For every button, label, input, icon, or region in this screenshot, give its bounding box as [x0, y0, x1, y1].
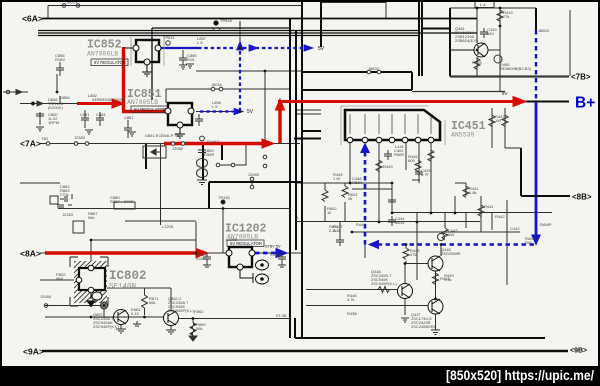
svg-text:R438: R438	[347, 311, 357, 316]
svg-text:56V: 56V	[487, 31, 494, 36]
svg-text:270k: 270k	[60, 192, 69, 197]
svg-text:R444: R444	[440, 276, 450, 281]
svg-text:RAMP: RAMP	[540, 222, 552, 227]
svg-text:2SC2458GRL: 2SC2458GRL	[411, 324, 437, 329]
svg-text:AN7806LB: AN7806LB	[87, 51, 118, 58]
svg-text:<6A>: <6A>	[22, 14, 43, 24]
svg-text:<9A>: <9A>	[23, 347, 44, 357]
svg-text:<7B>: <7B>	[571, 73, 591, 82]
svg-text:R443: R443	[383, 164, 393, 169]
svg-text:TP818: TP818	[220, 18, 233, 23]
svg-text:B+: B+	[575, 95, 595, 112]
svg-text:680R: 680R	[395, 220, 405, 225]
svg-text:77k: 77k	[503, 14, 509, 19]
svg-text:AN7805LB: AN7805LB	[127, 99, 158, 106]
svg-text:J2068: J2068	[40, 294, 52, 299]
svg-text:AN5539: AN5539	[451, 132, 475, 139]
svg-text:C867: C867	[124, 115, 134, 120]
svg-text:R442: R442	[495, 214, 505, 219]
svg-text:4k: 4k	[348, 196, 352, 201]
svg-text:56k: 56k	[196, 326, 202, 331]
svg-text:D856: D856	[60, 95, 70, 100]
svg-text:FB62: FB62	[194, 309, 204, 314]
svg-text:5V REGULATOR: 5V REGULATOR	[134, 107, 166, 112]
svg-text:0.15: 0.15	[131, 311, 140, 316]
svg-text:1W: 1W	[448, 232, 454, 237]
svg-text:R16V: R16V	[196, 256, 206, 261]
svg-text:1k: 1k	[327, 210, 331, 215]
svg-text:TP811: TP811	[163, 35, 175, 40]
svg-text:<8A>: <8A>	[20, 249, 41, 259]
svg-text:1 W: 1 W	[333, 176, 340, 181]
svg-text:J8016: J8016	[211, 82, 223, 87]
svg-text:2SD2058R: 2SD2058R	[441, 251, 461, 256]
svg-text:C864: C864	[96, 112, 106, 117]
svg-text:5V: 5V	[318, 46, 325, 52]
svg-text:J2163: J2163	[62, 212, 74, 217]
svg-text:0T-0B: 0T-0B	[276, 313, 287, 318]
svg-text:6V REGULATOR: 6V REGULATOR	[94, 60, 126, 65]
svg-text:R16: R16	[187, 57, 195, 62]
svg-text:R867: R867	[110, 199, 120, 204]
svg-text:MW: MW	[56, 276, 63, 281]
svg-text:600: 600	[408, 158, 415, 163]
svg-text:9V: 9V	[502, 91, 508, 96]
svg-text:04RB334(LX2026): 04RB334(LX2026)	[92, 97, 126, 102]
svg-text:L 4: L 4	[480, 2, 486, 7]
svg-text:R418: R418	[472, 60, 482, 65]
svg-text:TB2: TB2	[41, 136, 49, 141]
svg-text:<9B>: <9B>	[570, 348, 587, 355]
svg-text:2SB624(E,F): 2SB624(E,F)	[455, 38, 479, 43]
svg-text:556: 556	[525, 240, 532, 245]
svg-text:L1205: L1205	[226, 237, 238, 242]
svg-text:J8603: J8603	[538, 28, 550, 33]
svg-text:C442: C442	[510, 226, 520, 231]
svg-text:47k: 47k	[410, 252, 416, 257]
svg-text:J2383: J2383	[74, 135, 86, 140]
svg-text:5V: 5V	[247, 109, 254, 115]
svg-text:4.7k: 4.7k	[347, 297, 355, 302]
svg-text:1RPM: 1RPM	[48, 120, 59, 125]
svg-text:D1442: D1442	[207, 139, 220, 144]
svg-text:RD5600B(B2,B3): RD5600B(B2,B3)	[500, 66, 532, 71]
svg-text:(K200V): (K200V)	[48, 105, 63, 110]
svg-text:R16V: R16V	[55, 57, 65, 62]
svg-text:C861: C861	[80, 112, 90, 117]
svg-text:J2065: J2065	[172, 146, 184, 151]
svg-text:56k: 56k	[149, 300, 155, 305]
svg-text:L 5: L 5	[212, 104, 218, 109]
svg-text:R443: R443	[356, 222, 366, 227]
svg-text:[850x520] https://upic.me/: [850x520] https://upic.me/	[446, 368, 594, 383]
svg-text:2SC945P(K,L): 2SC945P(K,L)	[93, 324, 119, 329]
svg-text:L 5: L 5	[197, 40, 203, 45]
svg-text:STBY 5V: STBY 5V	[265, 245, 281, 249]
svg-text:L441: L441	[395, 144, 405, 149]
svg-text:<8B>: <8B>	[572, 193, 592, 202]
svg-text:1W: 1W	[495, 118, 501, 123]
svg-text:2.2k: 2.2k	[329, 228, 337, 233]
svg-text:J8632: J8632	[368, 66, 380, 71]
svg-text:TP445: TP445	[218, 195, 231, 200]
svg-text:56k: 56k	[88, 215, 94, 220]
svg-text:2SC945P(K,L): 2SC945P(K,L)	[371, 281, 397, 286]
svg-text:IC802: IC802	[109, 269, 147, 283]
svg-text:1.8k: 1.8k	[469, 190, 477, 195]
svg-text:R441: R441	[484, 204, 494, 209]
svg-text:R50R: R50R	[352, 180, 362, 185]
svg-text:J2065: J2065	[248, 172, 260, 177]
svg-text:SE140N: SE140N	[109, 283, 136, 291]
svg-text:2SC945P(K,L): 2SC945P(K,L)	[168, 308, 194, 313]
svg-text:D851 ECB04LP '91: D851 ECB04LP '91	[145, 133, 180, 138]
svg-text:R50R: R50R	[394, 152, 404, 157]
svg-text:4.7F: 4.7F	[421, 172, 430, 177]
svg-text:<7A>: <7A>	[20, 139, 41, 149]
svg-text:C1203: C1203	[270, 252, 283, 257]
svg-text:L1205: L1205	[162, 224, 174, 229]
svg-text:R50R: R50R	[204, 152, 214, 157]
svg-text:270R: 270R	[124, 199, 134, 204]
